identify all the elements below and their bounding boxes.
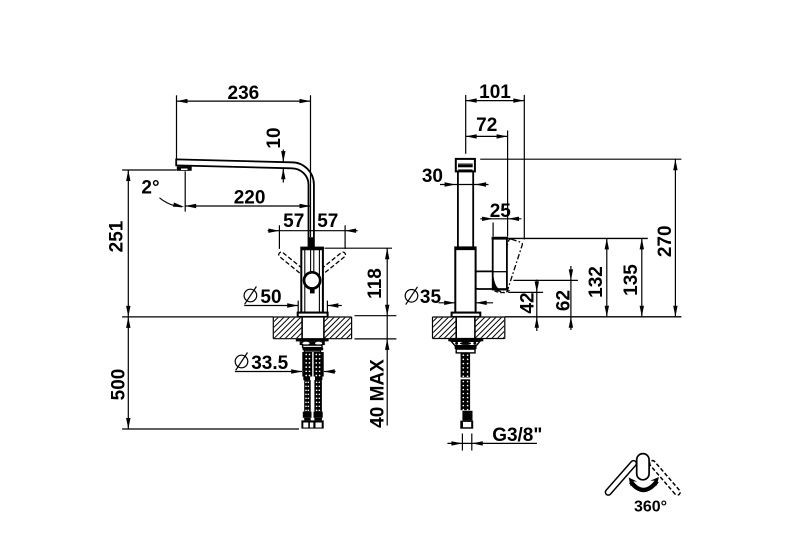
svg-text:62: 62 (554, 290, 575, 311)
svg-text:118: 118 (365, 268, 386, 299)
svg-text:10: 10 (264, 127, 285, 148)
svg-text:40 MAX: 40 MAX (368, 359, 389, 428)
svg-text:101: 101 (479, 82, 511, 103)
svg-text:2°: 2° (141, 177, 159, 198)
svg-text:132: 132 (586, 266, 607, 298)
svg-text:220: 220 (234, 188, 266, 209)
svg-text:42: 42 (518, 292, 539, 313)
svg-text:360°: 360° (634, 498, 667, 515)
svg-text:72: 72 (476, 115, 497, 136)
svg-text:35: 35 (420, 287, 442, 308)
svg-text:G3/8": G3/8" (492, 425, 542, 446)
svg-text:33.5: 33.5 (251, 353, 288, 374)
svg-text:500: 500 (109, 369, 130, 401)
svg-text:135: 135 (621, 264, 642, 296)
svg-text:270: 270 (655, 225, 676, 257)
svg-text:251: 251 (107, 220, 128, 252)
svg-text:30: 30 (422, 166, 443, 187)
svg-text:57: 57 (317, 211, 338, 232)
svg-text:236: 236 (228, 83, 260, 104)
svg-text:25: 25 (490, 201, 512, 222)
svg-text:57: 57 (283, 211, 304, 232)
svg-text:50: 50 (260, 287, 281, 308)
